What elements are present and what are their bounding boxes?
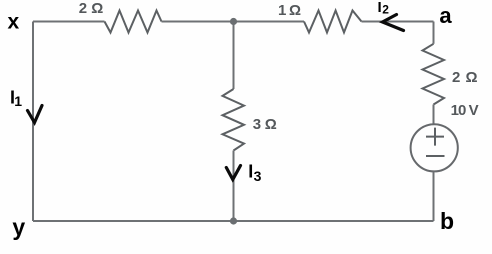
wire middle vertical lower: R3 to bottom junction [233, 151, 235, 222]
resistor R1 2ohm horizontal [105, 11, 162, 33]
wire left vertical: x to y [32, 22, 34, 222]
svg-text:3: 3 [254, 168, 262, 184]
current arrow I3 [226, 166, 240, 180]
svg-text:1: 1 [14, 93, 22, 109]
wire top-right: R2 to node a [362, 21, 434, 23]
svg-text:I: I [378, 0, 382, 16]
resistor R3 3ohm vertical [223, 89, 245, 151]
svg-text:a: a [439, 3, 452, 28]
V1 minus sign [426, 155, 445, 157]
wire right vertical upper: node a to R4 [433, 22, 435, 44]
svg-text:I: I [248, 162, 253, 182]
wire middle vertical upper: junction to R3 [233, 22, 235, 90]
svg-text:2: 2 [382, 3, 389, 17]
svg-text:2 Ω: 2 Ω [452, 69, 478, 86]
voltage source V1 circle [411, 124, 458, 171]
wire right vertical lower: V1 to node b [433, 172, 435, 221]
wire top-left: node x to resistor R1 [33, 21, 105, 23]
svg-text:x: x [8, 11, 20, 34]
V1 plus sign [426, 128, 444, 146]
resistor R4 2ohm vertical [423, 44, 445, 105]
junction dot top [230, 18, 237, 25]
svg-text:b: b [440, 208, 454, 234]
wire top-middle: R1 to node junction [162, 21, 305, 23]
current arrow I1 [28, 106, 43, 123]
svg-text:10 V: 10 V [451, 102, 479, 119]
svg-text:1 Ω: 1 Ω [278, 2, 301, 19]
wire right: R4 to source V1 [433, 105, 435, 124]
svg-text:3 Ω: 3 Ω [253, 116, 277, 133]
resistor R2 1ohm horizontal [304, 11, 362, 33]
junction dot bottom [230, 217, 237, 224]
current arrow I2 [383, 15, 404, 31]
svg-text:2 Ω: 2 Ω [79, 0, 104, 17]
svg-text:y: y [12, 214, 25, 240]
wire bottom: y to b [33, 220, 434, 222]
